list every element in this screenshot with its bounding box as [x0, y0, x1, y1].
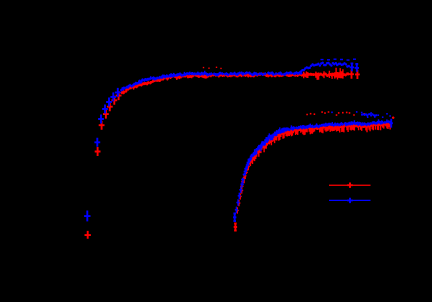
red series sparse markers with error bars — [85, 70, 360, 239]
legend red line sample — [329, 184, 371, 186]
legend blue line sample — [329, 199, 371, 201]
curve 1 and curve 2 red series dense points — [120, 67, 394, 214]
curve 1 and curve 2 blue series dense points — [120, 59, 391, 213]
blue series sparse markers with error bars — [84, 63, 393, 221]
legend red marker — [347, 183, 353, 188]
legend blue marker — [347, 198, 353, 203]
